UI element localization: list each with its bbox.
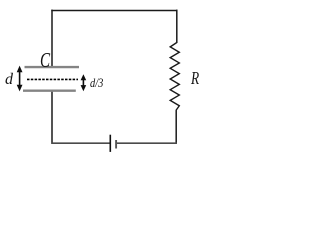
- wire left lower (capacitor bottom plate to bottom wire): [51, 91, 53, 144]
- wire right lower (resistor to bottom wire): [175, 110, 177, 144]
- dashed slab line inside capacitor: [27, 78, 78, 80]
- label d (plate separation): [5, 72, 13, 88]
- battery long plate (positive): [109, 135, 111, 152]
- resistor R zigzag: [170, 43, 179, 111]
- dimension arrow d (left, between plates): [17, 66, 23, 92]
- label d/3 (slab distance): [90, 76, 103, 89]
- capacitor C bottom plate: [23, 89, 76, 91]
- wire bottom right (from battery): [116, 142, 177, 144]
- capacitor C top plate: [25, 66, 80, 68]
- label C (capacitor): [40, 50, 50, 71]
- wire bottom left (to battery): [51, 142, 110, 144]
- battery short plate (negative): [115, 140, 117, 149]
- wire left upper (top wire to capacitor top plate): [51, 10, 53, 67]
- label R (resistor): [191, 69, 199, 87]
- wire right upper (top wire to resistor): [176, 10, 178, 43]
- wire top: [51, 10, 177, 12]
- dimension arrow d/3 (right, dashed line to bottom plate): [81, 74, 87, 91]
